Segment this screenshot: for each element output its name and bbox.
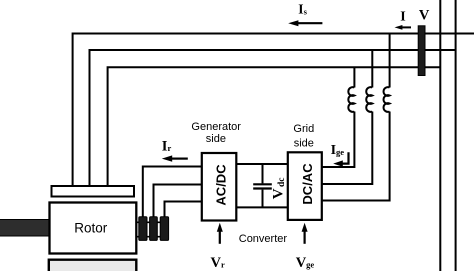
svg-text:DC/AC: DC/AC [300,163,315,205]
svg-text:Grid: Grid [293,123,314,135]
svg-text:Converter: Converter [239,233,288,245]
svg-text:side: side [294,137,314,149]
svg-text:AC/DC: AC/DC [214,164,229,206]
svg-text:Rotor: Rotor [74,221,108,236]
svg-text:Generator: Generator [191,121,241,133]
svg-text:I: I [400,10,405,25]
svg-text:V: V [419,7,430,23]
svg-text:side: side [206,133,226,145]
